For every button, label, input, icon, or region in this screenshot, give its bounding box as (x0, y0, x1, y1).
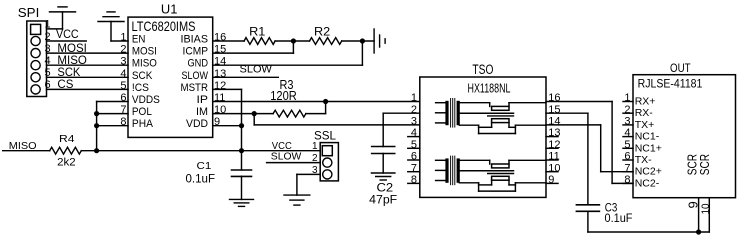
svg-text:LTC6820IMS: LTC6820IMS (132, 18, 196, 34)
svg-text:R4: R4 (59, 133, 75, 145)
svg-text:TSO: TSO (472, 62, 493, 77)
svg-text:4: 4 (411, 127, 417, 139)
svg-text:0.1uF: 0.1uF (186, 171, 216, 185)
svg-text:CS: CS (57, 79, 73, 91)
svg-text:IM: IM (196, 106, 208, 118)
svg-text:PHA: PHA (132, 118, 154, 130)
svg-text:RX-: RX- (635, 107, 654, 119)
svg-text:1: 1 (120, 32, 126, 44)
svg-text:MISO: MISO (132, 58, 157, 70)
svg-text:8: 8 (411, 174, 417, 186)
svg-text:MOSI: MOSI (57, 43, 87, 55)
svg-text:1: 1 (312, 141, 318, 152)
svg-text:9: 9 (685, 201, 700, 208)
svg-text:8: 8 (624, 174, 630, 186)
svg-text:4: 4 (624, 127, 630, 139)
svg-text:2: 2 (120, 44, 126, 56)
svg-text:MSTR: MSTR (181, 82, 209, 94)
svg-text:VCC: VCC (56, 29, 79, 41)
svg-text:5: 5 (44, 67, 50, 79)
svg-text:SLOW: SLOW (240, 64, 273, 76)
svg-text:HX1188NL: HX1188NL (468, 81, 511, 95)
svg-text:NC1-: NC1- (635, 131, 660, 143)
svg-text:3: 3 (44, 43, 50, 55)
svg-text:POL: POL (132, 106, 152, 118)
svg-text:120R: 120R (270, 88, 297, 103)
svg-text:SCR: SCR (698, 154, 712, 175)
svg-text:3: 3 (624, 116, 630, 128)
svg-text:OUT: OUT (670, 61, 691, 75)
svg-text:7: 7 (120, 104, 126, 116)
svg-text:SLOW: SLOW (271, 151, 302, 162)
svg-text:6: 6 (624, 151, 630, 163)
svg-text:5: 5 (624, 139, 630, 151)
svg-text:ICMP: ICMP (183, 46, 209, 58)
svg-text:10: 10 (214, 104, 226, 116)
svg-text:NC2+: NC2+ (635, 166, 662, 178)
svg-text:9: 9 (548, 174, 554, 186)
svg-text:4: 4 (120, 68, 126, 80)
svg-text:16: 16 (548, 92, 560, 104)
svg-text:C1: C1 (197, 160, 212, 172)
svg-text:16: 16 (214, 32, 226, 44)
svg-text:12: 12 (548, 139, 560, 151)
svg-text:1: 1 (411, 92, 417, 104)
svg-text:VDDS: VDDS (132, 94, 160, 106)
svg-text:12: 12 (214, 80, 226, 92)
svg-text:4: 4 (44, 55, 50, 67)
svg-text:MISO: MISO (57, 55, 87, 67)
svg-text:VDD: VDD (186, 118, 208, 130)
svg-text:U1: U1 (161, 3, 178, 17)
svg-text:2k2: 2k2 (57, 157, 76, 169)
svg-text:SCK: SCK (57, 67, 80, 79)
svg-text:15: 15 (214, 44, 226, 56)
svg-text:1: 1 (44, 19, 50, 31)
svg-text:10: 10 (548, 162, 560, 174)
svg-text:0.1uF: 0.1uF (605, 211, 633, 225)
svg-text:7: 7 (624, 162, 630, 174)
svg-text:6: 6 (411, 151, 417, 163)
svg-text:R2: R2 (314, 26, 330, 38)
svg-text:11: 11 (548, 151, 559, 163)
svg-text:5: 5 (411, 139, 417, 151)
svg-text:1: 1 (624, 92, 630, 104)
svg-text:8: 8 (120, 116, 126, 128)
svg-text:3: 3 (120, 56, 126, 68)
svg-text:13: 13 (214, 68, 226, 80)
svg-text:2: 2 (624, 104, 630, 116)
svg-text:3: 3 (312, 165, 318, 176)
svg-text:TX+: TX+ (635, 119, 655, 131)
svg-text:VCC: VCC (272, 141, 292, 152)
svg-text:2: 2 (44, 31, 50, 43)
svg-text:47pF: 47pF (369, 193, 397, 207)
svg-text:!CS: !CS (132, 82, 149, 94)
svg-text:MOSI: MOSI (132, 46, 157, 58)
svg-text:7: 7 (411, 162, 417, 174)
svg-text:RJLSE-41181: RJLSE-41181 (638, 77, 703, 91)
svg-text:2: 2 (312, 153, 318, 164)
svg-text:R1: R1 (249, 26, 265, 38)
svg-text:NC2-: NC2- (635, 177, 660, 189)
svg-text:15: 15 (548, 104, 560, 116)
svg-text:NC1+: NC1+ (635, 142, 662, 154)
svg-text:10: 10 (700, 204, 712, 215)
svg-text:2: 2 (411, 104, 417, 116)
svg-text:EN: EN (132, 34, 146, 46)
svg-text:9: 9 (214, 116, 220, 128)
svg-text:IP: IP (197, 94, 209, 106)
svg-text:6: 6 (44, 79, 50, 91)
svg-text:GND: GND (188, 58, 209, 70)
svg-text:MISO: MISO (9, 141, 37, 152)
svg-text:14: 14 (548, 116, 560, 128)
svg-text:TX-: TX- (635, 154, 652, 166)
svg-text:13: 13 (548, 127, 560, 139)
svg-text:SPI: SPI (18, 5, 40, 20)
svg-text:SLOW: SLOW (182, 70, 209, 82)
svg-text:3: 3 (411, 116, 417, 128)
svg-text:SCK: SCK (132, 70, 153, 82)
svg-text:IBIAS: IBIAS (181, 34, 209, 46)
svg-text:11: 11 (214, 92, 225, 104)
svg-text:RX+: RX+ (635, 96, 656, 108)
svg-text:6: 6 (120, 92, 126, 104)
svg-text:5: 5 (120, 80, 126, 92)
svg-text:14: 14 (214, 56, 226, 68)
